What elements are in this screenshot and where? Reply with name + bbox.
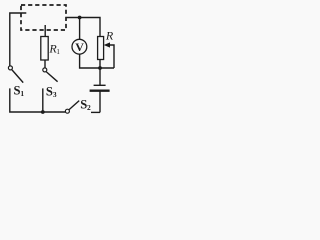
label S2 bbox=[80, 98, 91, 112]
wire: from dashed box down to R1 bbox=[44, 25, 46, 37]
svg-text:V: V bbox=[75, 40, 84, 54]
wire: top-right from dashed box to rheostat top bbox=[67, 18, 100, 37]
resistor R1 bbox=[41, 37, 48, 61]
wire: S3 bottom lead down to bottom rail bbox=[42, 88, 44, 112]
wire: S1 bottom lead and bottom rail to S2 bbox=[10, 88, 66, 112]
battery (cell) bbox=[90, 68, 110, 112]
label S3 bbox=[46, 84, 57, 98]
label R bbox=[105, 29, 114, 43]
svg-text:1: 1 bbox=[56, 48, 60, 56]
label V (inside meter) bbox=[75, 40, 84, 54]
wire: R1 bottom lead to S3 bbox=[44, 60, 46, 68]
svg-text:3: 3 bbox=[53, 90, 57, 99]
wiper arrow of rheostat bbox=[104, 42, 114, 68]
wire: rheostat bottom lead bbox=[99, 60, 101, 69]
switch S3 bbox=[43, 68, 58, 82]
label R1 bbox=[48, 42, 60, 57]
svg-text:2: 2 bbox=[87, 103, 91, 112]
rheostat R (slider resistor body) bbox=[98, 37, 104, 60]
svg-text:R: R bbox=[105, 29, 114, 43]
wire: right rail segment from battery to S2 bbox=[91, 111, 100, 113]
wire: left lead into dashed box, horizontal then down left side bbox=[10, 13, 27, 66]
voltmeter V (meter) bbox=[72, 39, 87, 54]
black box (dashed rectangle) bbox=[21, 5, 66, 30]
svg-text:S: S bbox=[46, 84, 53, 98]
wire: voltmeter top lead bbox=[79, 18, 81, 40]
junction dot: node below rheostat bbox=[98, 66, 102, 70]
switch S1 bbox=[8, 66, 23, 83]
wire: voltmeter bottom lead down to node rail bbox=[80, 54, 114, 68]
svg-text:1: 1 bbox=[20, 89, 24, 98]
junction dot: voltmeter tap on top wire bbox=[78, 16, 82, 20]
junction dot: bottom rail / S3 branch bbox=[41, 110, 45, 114]
label S1 bbox=[14, 84, 25, 98]
switch S2 bbox=[65, 101, 79, 114]
